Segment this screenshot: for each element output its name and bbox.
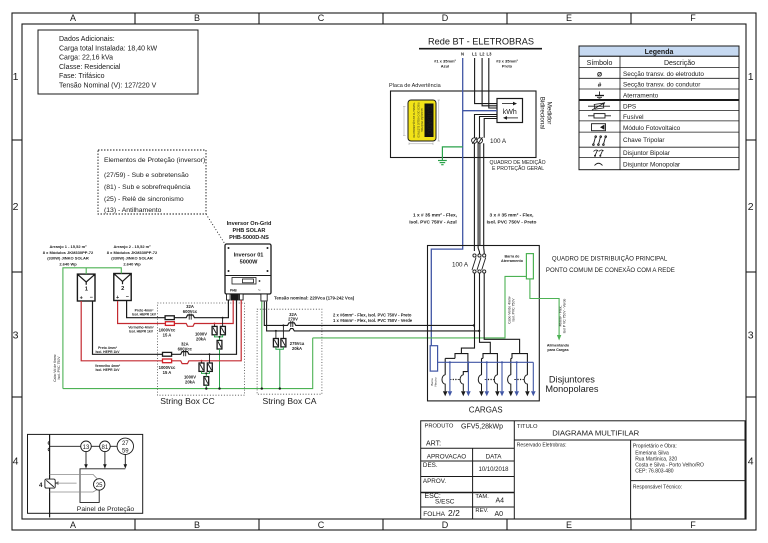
svg-text:F: F <box>690 13 696 23</box>
svg-text:Secção transv. do condutor: Secção transv. do condutor <box>623 82 701 89</box>
svg-text:Monopolares: Monopolares <box>545 384 599 394</box>
svg-text:TITULO: TITULO <box>517 424 538 430</box>
svg-text:Fusível: Fusível <box>623 114 644 121</box>
wire conduit line <box>479 143 481 246</box>
svg-text:8 x Módulos JKM330PP-72: 8 x Módulos JKM330PP-72 <box>107 250 158 255</box>
svg-text:B: B <box>194 13 200 23</box>
svg-text:100 A: 100 A <box>452 262 469 269</box>
svg-text:A: A <box>70 520 76 530</box>
svg-text:Isol. PVC 750V - Preto: Isol. PVC 750V - Preto <box>487 219 537 225</box>
svg-text:Elementos de Proteção (inverso: Elementos de Proteção (inversor) <box>104 157 205 164</box>
wire: arranjo2 black to CC <box>127 300 229 318</box>
wire: AC phase 1 inverter to board (through chave CA) <box>264 302 474 326</box>
chave CA (32A 270V) contact ticks <box>290 321 292 327</box>
svg-text:4: 4 <box>13 456 19 468</box>
barra neutro <box>430 346 437 371</box>
svg-text:2: 2 <box>748 201 754 213</box>
svg-text:Carga: 22,16 kVa: Carga: 22,16 kVa <box>59 55 113 62</box>
chave CC upper (32A 600Vcc) contact ticks <box>188 314 190 320</box>
bracket 2 <box>483 354 497 375</box>
svg-text:ART:: ART: <box>426 441 441 448</box>
svg-text:(25) - Relê de sincronismo: (25) - Relê de sincronismo <box>104 196 184 203</box>
wire meter output L2 <box>480 117 498 138</box>
wire L3 to distribution board <box>483 143 485 248</box>
svg-text:10/10/2018: 10/10/2018 <box>478 467 509 473</box>
wire: PE bond neutral to ground <box>442 147 462 161</box>
svg-text:DIAGRAMA MULTIFILAR: DIAGRAMA MULTIFILAR <box>552 429 639 438</box>
wire: arranjo1 black to CC lower <box>93 300 237 354</box>
svg-text:Isol. HEPR 1kV: Isol. HEPR 1kV <box>95 350 120 354</box>
svg-text:+: + <box>116 295 119 301</box>
svg-text:CUIDADO: CUIDADO <box>425 106 432 135</box>
quadro de distribuicao principal <box>428 246 675 415</box>
inverter U1 <box>225 221 272 301</box>
svg-text:#: # <box>598 82 602 89</box>
svg-text:PONTO COMUM DE CONEXÃO COM A R: PONTO COMUM DE CONEXÃO COM A REDE <box>546 267 675 274</box>
svg-text:Inversor 01: Inversor 01 <box>234 253 264 259</box>
wire: frame ground array 2 <box>63 268 121 389</box>
DPS lower group <box>199 354 212 385</box>
svg-text:20kA: 20kA <box>292 346 302 351</box>
wire: N neutral blue drop <box>431 58 497 347</box>
funnel lines grey <box>50 474 98 492</box>
inverter terminals <box>227 294 231 300</box>
disjuntor monopolar 6 <box>524 375 527 391</box>
svg-text:2 x #6mm² - Flex, Isol. PVC 75: 2 x #6mm² - Flex, Isol. PVC 750V - Preto <box>333 313 412 318</box>
svg-text:3: 3 <box>748 330 754 342</box>
svg-text:(27/59) - Sub e sobretensão: (27/59) - Sub e sobretensão <box>104 172 189 179</box>
svg-text:Azul: Azul <box>441 64 449 69</box>
svg-text:3 x # 35 mm² - Flex,: 3 x # 35 mm² - Flex, <box>490 213 535 219</box>
svg-text:Dados Adicionais:: Dados Adicionais: <box>59 36 115 43</box>
svg-text:DES.: DES. <box>423 462 438 469</box>
svg-text:Fase: Trifásico: Fase: Trifásico <box>59 73 105 80</box>
dados adicionais box <box>38 30 198 94</box>
svg-text:Aterramento: Aterramento <box>501 259 524 263</box>
wire L1 to distribution board <box>473 143 475 251</box>
svg-text:20kA: 20kA <box>185 380 195 385</box>
svg-text:A: A <box>70 13 76 23</box>
svg-text:1: 1 <box>13 71 19 83</box>
disjuntor monopolar 1 <box>442 375 445 391</box>
svg-text:DPS: DPS <box>623 104 636 111</box>
svg-text:REV.: REV. <box>475 508 488 514</box>
wire: arranjo2 red to CC <box>118 300 234 326</box>
ground bond at meter <box>438 147 463 165</box>
ground symbol <box>438 160 447 162</box>
neutral bus + drops (blue) <box>438 362 534 391</box>
svg-text:Descrição: Descrição <box>664 60 695 67</box>
svg-text:2: 2 <box>121 286 124 292</box>
dots between breaker pairs <box>450 379 525 380</box>
bracket 3 <box>512 354 527 375</box>
svg-text:8 x Módulos JKM330PP-72: 8 x Módulos JKM330PP-72 <box>43 250 94 255</box>
svg-text:C: C <box>318 520 325 530</box>
wire L1 into meter <box>475 58 497 104</box>
svg-text:B: B <box>194 520 200 530</box>
svg-text:D: D <box>442 520 449 530</box>
relay 27/59 <box>117 438 133 454</box>
svg-text:Barra de: Barra de <box>505 255 520 259</box>
svg-text:Placa de Advertência: Placa de Advertência <box>389 83 442 89</box>
svg-text:59: 59 <box>122 449 129 455</box>
svg-text:Isol. PVC 750V: Isol. PVC 750V <box>512 298 516 322</box>
symbol disjuntor monopolar <box>595 163 603 165</box>
svg-text:GERAÇÃO PRÓPRIA: GERAÇÃO PRÓPRIA <box>420 108 423 132</box>
svg-text:QUADRO DE DISTRIBUIÇÃO PRINCIP: QUADRO DE DISTRIBUIÇÃO PRINCIPAL <box>552 256 668 263</box>
svg-text:L1: L1 <box>472 52 478 57</box>
svg-text:L2: L2 <box>480 52 486 57</box>
DPS CA group <box>273 325 286 347</box>
svg-text:15 A: 15 A <box>163 333 172 338</box>
green wire CA to distribution <box>313 276 527 338</box>
svg-text:Isol. PVC 750V - Azul: Isol. PVC 750V - Azul <box>409 219 457 225</box>
svg-text:String Box CA: String Box CA <box>263 396 317 406</box>
svg-text:−: − <box>126 295 129 301</box>
svg-text:D: D <box>442 13 449 23</box>
svg-text:81: 81 <box>102 445 109 451</box>
elementos de protecao dashed box <box>98 150 225 244</box>
legenda table <box>579 46 739 170</box>
svg-text:Preto: Preto <box>502 64 513 69</box>
symbol modulo fotovoltaico <box>592 124 606 131</box>
string box CA dashed border <box>257 309 322 394</box>
svg-text:L3: L3 <box>487 52 493 57</box>
svg-text:APROV.: APROV. <box>423 478 446 485</box>
wire: BT bus <box>419 48 542 50</box>
svg-text:E PROTEÇÃO GERAL: E PROTEÇÃO GERAL <box>492 165 544 172</box>
svg-text:String Box CC: String Box CC <box>160 396 214 406</box>
svg-text:QUADRO DE MEDIÇÃO: QUADRO DE MEDIÇÃO <box>490 159 546 166</box>
svg-text:Isol. PVC 750V: Isol. PVC 750V <box>57 356 61 380</box>
dotted callout line <box>206 214 225 244</box>
svg-text:S/ESC: S/ESC <box>435 499 455 506</box>
fuse F2b (red) <box>165 322 174 326</box>
svg-text:600Vcc: 600Vcc <box>183 309 198 314</box>
svg-text:25: 25 <box>96 483 103 489</box>
svg-text:Neutro: Neutro <box>434 377 438 386</box>
svg-text:27: 27 <box>122 441 129 447</box>
title block <box>421 421 746 519</box>
svg-text:Arranjo 1 - 15,52 m²: Arranjo 1 - 15,52 m² <box>49 244 87 249</box>
svg-text:4: 4 <box>748 456 754 468</box>
svg-text:5000W: 5000W <box>240 260 258 266</box>
wire: AC phase 2 inverter to board (through chave CA) <box>267 302 480 331</box>
svg-text:Tensão nominal: 220Vca (179-24: Tensão nominal: 220Vca (179-242 Vca) <box>274 296 355 301</box>
svg-text:4: 4 <box>39 482 43 489</box>
svg-text:2.640 Wp: 2.640 Wp <box>59 261 77 266</box>
green bus bottom <box>63 338 313 389</box>
svg-text:13: 13 <box>83 445 90 451</box>
wire: arranjo1 red to CC lower <box>81 300 241 364</box>
relay 81 <box>100 441 111 452</box>
svg-text:(330W) JINKO SOLAR: (330W) JINKO SOLAR <box>111 256 153 261</box>
svg-text:1 x #6mm² - Flex, Isol. PVC 75: 1 x #6mm² - Flex, Isol. PVC 750V - Verde <box>333 318 413 323</box>
svg-text:Arranjo 2 - 15,52 m²: Arranjo 2 - 15,52 m² <box>113 244 151 249</box>
svg-text:270V: 270V <box>288 317 298 322</box>
svg-text:2/2: 2/2 <box>448 508 460 518</box>
svg-text:Isol. HEPR 1kV: Isol. HEPR 1kV <box>129 330 154 334</box>
relay 25 <box>94 479 105 490</box>
relay 13 <box>81 441 92 452</box>
svg-text:+: + <box>80 296 83 302</box>
svg-text:DATA: DATA <box>486 453 503 460</box>
svg-text:TRABALHO EM EQUIPAMENTO: TRABALHO EM EQUIPAMENTO <box>412 102 415 137</box>
disjuntor monopolar 2 <box>460 375 463 391</box>
wire L3 into meter <box>489 58 497 108</box>
disjuntor monopolar 3 <box>478 375 481 391</box>
svg-text:CEP: 76.803-480: CEP: 76.803-480 <box>635 469 674 475</box>
symbol DPS <box>588 103 610 111</box>
svg-text:Isol P VC 750V - Verde: Isol P VC 750V - Verde <box>563 298 567 333</box>
string box CC dashed border <box>158 303 245 395</box>
svg-text:Responsável Técnico:: Responsável Técnico: <box>633 485 682 491</box>
svg-text:FOLHA: FOLHA <box>423 511 445 518</box>
symbol aterramento <box>595 92 604 99</box>
svg-text:Isol. HEPR 1kV: Isol. HEPR 1kV <box>132 313 157 317</box>
svg-text:Painel de Proteção: Painel de Proteção <box>77 506 135 513</box>
svg-text:PHB SOLAR: PHB SOLAR <box>233 228 266 234</box>
svg-text:1 x # 35 mm² - Flex,: 1 x # 35 mm² - Flex, <box>413 213 458 219</box>
symbol fusivel <box>588 114 611 118</box>
disjuntor monopolar 5 <box>508 375 511 391</box>
svg-text:Inversor On-Grid: Inversor On-Grid <box>227 221 272 227</box>
green from barra to cargas arrow <box>530 279 559 336</box>
svg-text:CARGAS: CARGAS <box>469 405 503 414</box>
svg-text:Medidor: Medidor <box>546 102 553 125</box>
svg-text:kWh: kWh <box>503 109 517 116</box>
phase wires to brackets <box>445 273 527 375</box>
bus line <box>49 434 51 517</box>
quadro de medicao box <box>389 83 546 172</box>
breakers monopolar (arcs) <box>442 375 527 391</box>
wire L2 into meter <box>482 58 497 106</box>
wire meter output L1 <box>475 115 498 138</box>
junction dots AC joins <box>473 324 475 326</box>
svg-text:Tensão Nominal (V): 127/220 V: Tensão Nominal (V): 127/220 V <box>59 83 157 90</box>
painel de protecao <box>28 434 143 517</box>
svg-text:20kA: 20kA <box>196 337 206 342</box>
wire: inverter ground green <box>261 302 263 389</box>
ground wiring arrays (green) <box>63 268 121 389</box>
svg-text:Carga total Instalada: 18,40 k: Carga total Instalada: 18,40 kW <box>59 45 157 52</box>
placa de advertencia (CUIDADO label) <box>403 100 440 145</box>
svg-text:APROVACAO: APROVACAO <box>427 453 467 460</box>
svg-text:Bidirecional: Bidirecional <box>539 97 546 130</box>
symbol disjuntor bipolar <box>594 150 604 156</box>
chave tripolar 100A <box>472 254 486 273</box>
wire labels mid run <box>409 213 536 226</box>
PV module arranjo 2 <box>107 244 158 301</box>
svg-text:Isol. HEPR 1kV: Isol. HEPR 1kV <box>95 368 120 372</box>
wire: neutral N drop to barra neutro <box>431 58 462 347</box>
svg-text:PHB: PHB <box>230 289 237 293</box>
wire: neutral tap into meter <box>463 110 497 112</box>
svg-text:15 A: 15 A <box>163 370 172 375</box>
bracket 1 <box>455 354 468 375</box>
svg-text:C: C <box>318 13 325 23</box>
fuse F1b (red) <box>163 359 172 363</box>
svg-text:600Vcc: 600Vcc <box>178 346 193 351</box>
svg-text:Disjuntor Bipolar: Disjuntor Bipolar <box>623 150 671 157</box>
svg-text:3: 3 <box>13 330 19 342</box>
wire L2 to distribution board <box>477 143 479 248</box>
rede BT eletrobras <box>419 37 542 69</box>
symbol chave tripolar <box>593 136 607 146</box>
svg-text:E: E <box>566 520 572 530</box>
wire to relays <box>50 445 81 447</box>
wire: L1 L2 L3 drops into meter <box>474 58 497 254</box>
svg-text:Chave Tripolar: Chave Tripolar <box>623 137 665 144</box>
svg-text:Ø: Ø <box>597 71 602 78</box>
svg-text:GFV5,28kWp: GFV5,28kWp <box>461 424 503 431</box>
wire: frame ground array 1 <box>85 268 87 274</box>
svg-text:F: F <box>690 520 696 530</box>
DPS upper group <box>212 318 225 349</box>
arrows black <box>443 391 530 396</box>
svg-text:TAM.: TAM. <box>475 494 489 500</box>
svg-text:(13) - Antilhamento: (13) - Antilhamento <box>104 207 162 214</box>
svg-text:Legenda: Legenda <box>645 49 674 56</box>
svg-text:Símbolo: Símbolo <box>587 60 613 67</box>
svg-text:−: − <box>90 295 93 301</box>
wire meter output L3 <box>484 119 497 138</box>
fuse F2a (black) <box>165 316 174 320</box>
svg-text:Proprietário e Obra:: Proprietário e Obra: <box>633 444 677 450</box>
arrows down <box>84 452 127 469</box>
svg-text:Módulo Fotovoltaico: Módulo Fotovoltaico <box>623 125 681 132</box>
component 4 (breaker) <box>45 479 55 488</box>
svg-text:2.640 Wp: 2.640 Wp <box>123 261 141 266</box>
fuse F1a (black) <box>163 352 172 356</box>
svg-text:A4: A4 <box>496 497 505 504</box>
wire: inverter AC L to CA box <box>264 302 479 331</box>
svg-text:PHB-5000D-NS: PHB-5000D-NS <box>229 235 269 241</box>
svg-text:Classe: Residencial: Classe: Residencial <box>59 64 121 71</box>
svg-text:Secção transv. do eletroduto: Secção transv. do eletroduto <box>623 71 704 78</box>
svg-text:(330W) JINKO SOLAR: (330W) JINKO SOLAR <box>47 256 89 261</box>
svg-text:Disjuntor Monopolar: Disjuntor Monopolar <box>623 162 681 169</box>
svg-text:Alimentando: Alimentando <box>547 344 570 348</box>
svg-text:~: ~ <box>258 288 261 293</box>
svg-text:N: N <box>461 52 464 57</box>
svg-text:Reservado Eletrobras:: Reservado Eletrobras: <box>517 443 567 449</box>
svg-text:E: E <box>566 13 572 23</box>
svg-text:Rede BT - ELETROBRAS: Rede BT - ELETROBRAS <box>428 37 534 47</box>
disjuntor monopolar 4 <box>494 375 497 391</box>
medidor kWh <box>497 97 553 130</box>
relay logic shape <box>80 469 125 503</box>
svg-text:RISCO DE CHOQUE ELÉTRICO: RISCO DE CHOQUE ELÉTRICO <box>417 102 420 137</box>
svg-text:100 A: 100 A <box>490 138 507 145</box>
svg-text:1: 1 <box>748 71 754 83</box>
svg-text:para Cargas: para Cargas <box>547 348 568 352</box>
PV module arranjo 1 <box>43 244 95 302</box>
svg-text:A0: A0 <box>495 511 504 518</box>
svg-text:Aterramento: Aterramento <box>623 92 659 99</box>
breaker 100A in quadro <box>472 137 483 144</box>
svg-text:2: 2 <box>13 201 19 213</box>
svg-text:PRODUTO: PRODUTO <box>425 423 454 429</box>
svg-text:(81) - Sub e sobrefrequência: (81) - Sub e sobrefrequência <box>104 184 191 191</box>
